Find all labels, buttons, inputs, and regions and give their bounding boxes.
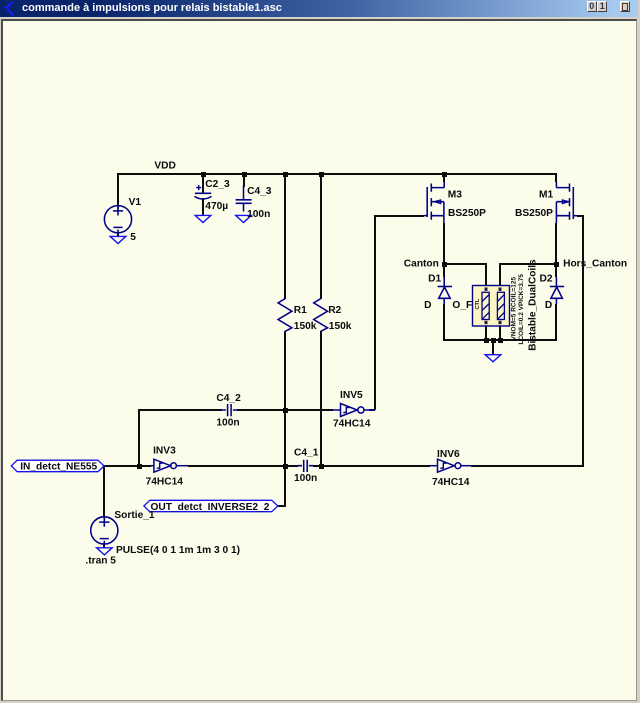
- svg-text:PULSE(4 0 1 1m 1m 3 0 1): PULSE(4 0 1 1m 1m 3 0 1): [116, 545, 240, 556]
- svg-text:V1: V1: [129, 197, 142, 208]
- svg-text:BS250P: BS250P: [515, 208, 553, 219]
- svg-text:INV5: INV5: [340, 390, 363, 401]
- svg-text:Canton: Canton: [404, 259, 439, 270]
- svg-text:74HC14: 74HC14: [333, 419, 371, 430]
- svg-text:D: D: [424, 300, 431, 311]
- svg-text:5: 5: [130, 232, 136, 243]
- svg-text:D: D: [545, 300, 552, 311]
- svg-text:100n: 100n: [294, 473, 317, 484]
- svg-text:Hors_Canton: Hors_Canton: [563, 259, 627, 270]
- svg-text:74HC14: 74HC14: [432, 477, 470, 488]
- svg-text:R1: R1: [294, 305, 307, 316]
- svg-text:INV3: INV3: [153, 446, 176, 457]
- svg-text:OUT_detct_INVERSE2_2: OUT_detct_INVERSE2_2: [151, 502, 270, 513]
- svg-text:470µ: 470µ: [205, 201, 228, 212]
- svg-text:R2: R2: [328, 305, 341, 316]
- svg-text:D1: D1: [428, 274, 441, 285]
- svg-text:C4_2: C4_2: [216, 393, 241, 404]
- svg-text:LCOIL=0.2 VPICK=3.75: LCOIL=0.2 VPICK=3.75: [518, 274, 525, 345]
- svg-text:VDD: VDD: [154, 161, 176, 172]
- svg-text:100n: 100n: [247, 209, 270, 220]
- svg-text:O_F: O_F: [452, 300, 472, 311]
- svg-text:.tran 5: .tran 5: [85, 556, 116, 567]
- svg-text:CTL: CTL: [475, 298, 481, 309]
- svg-text:INV6: INV6: [437, 449, 460, 460]
- svg-text:BS250P: BS250P: [448, 208, 486, 219]
- svg-text:C2_3: C2_3: [205, 179, 230, 190]
- svg-text:IN_detct_NE555: IN_detct_NE555: [20, 462, 97, 473]
- svg-text:Sortie_1: Sortie_1: [114, 510, 155, 521]
- svg-text:D2: D2: [540, 274, 553, 285]
- svg-text:M1: M1: [539, 189, 553, 200]
- svg-text:100n: 100n: [216, 418, 239, 429]
- svg-text:74HC14: 74HC14: [146, 476, 184, 487]
- svg-text:C4_3: C4_3: [247, 186, 272, 197]
- svg-text:VNOM=5 RCOIL=125: VNOM=5 RCOIL=125: [511, 277, 518, 341]
- svg-text:150k: 150k: [294, 321, 317, 332]
- svg-text:150k: 150k: [329, 321, 352, 332]
- svg-text:C4_1: C4_1: [294, 448, 319, 459]
- svg-text:M3: M3: [448, 189, 462, 200]
- svg-text:Bistable_DualCoils: Bistable_DualCoils: [527, 259, 538, 351]
